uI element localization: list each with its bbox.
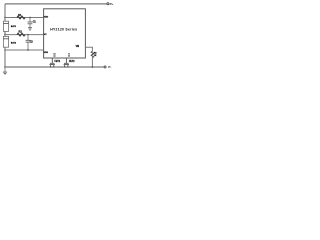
svg-text:BAT2: BAT2: [11, 41, 17, 44]
wire VM pin to R3: [85, 47, 92, 51]
resistor R3: [91, 51, 93, 57]
svg-text:FET1: FET1: [55, 61, 61, 63]
terminal P-: [104, 66, 106, 68]
wire left vertical from B+ down to BAT1: [4, 4, 6, 21]
wire B- stub down: [4, 67, 6, 72]
wire bottom rail to P-: [5, 66, 104, 68]
capacitor C1: [29, 18, 31, 22]
node C2 bottom junction: [27, 49, 29, 51]
ground below B-: [3, 71, 7, 73]
wire VSS row: [5, 49, 44, 51]
node R3 rail junction: [92, 66, 94, 68]
node C1 junction: [29, 17, 31, 19]
svg-text:P+: P+: [110, 2, 114, 6]
svg-text:CO: CO: [67, 53, 71, 57]
battery BAT2: [3, 36, 8, 47]
svg-text:VSS: VSS: [44, 52, 49, 54]
node VSS tap: [4, 49, 6, 51]
transistor FET2: [65, 58, 67, 63]
resistor R2: [17, 33, 25, 36]
op-amp U1 IC box HY2120 Series: [44, 9, 86, 58]
svg-text:VC: VC: [44, 34, 47, 36]
resistor R1: [17, 16, 25, 19]
svg-text:R1: R1: [18, 13, 22, 17]
wire left vertical to bottom rail: [4, 47, 6, 67]
svg-text:R2: R2: [19, 30, 23, 34]
node B- rail junction: [4, 66, 6, 68]
svg-text:FET2: FET2: [69, 61, 75, 63]
svg-text:BAT1: BAT1: [11, 25, 17, 28]
node C2 junction: [27, 34, 29, 36]
ground below C1: [28, 27, 32, 29]
wire top rail B+ to P+: [5, 3, 107, 5]
wire R3 to bottom rail: [91, 58, 93, 67]
terminal P+: [107, 3, 109, 5]
transistor FET1: [51, 58, 53, 63]
svg-text:VDD: VDD: [44, 17, 49, 19]
battery BAT1: [3, 21, 8, 31]
wire VDD row: [5, 17, 44, 19]
node VC tap on battery string: [4, 31, 6, 36]
node VDD branch: [4, 17, 6, 19]
svg-text:P-: P-: [108, 65, 111, 69]
svg-text:HY2120 Series: HY2120 Series: [50, 27, 77, 31]
wire VC row: [5, 34, 44, 36]
svg-text:VM: VM: [76, 46, 80, 48]
capacitor C2: [27, 35, 29, 40]
svg-text:1K: 1K: [94, 55, 97, 57]
